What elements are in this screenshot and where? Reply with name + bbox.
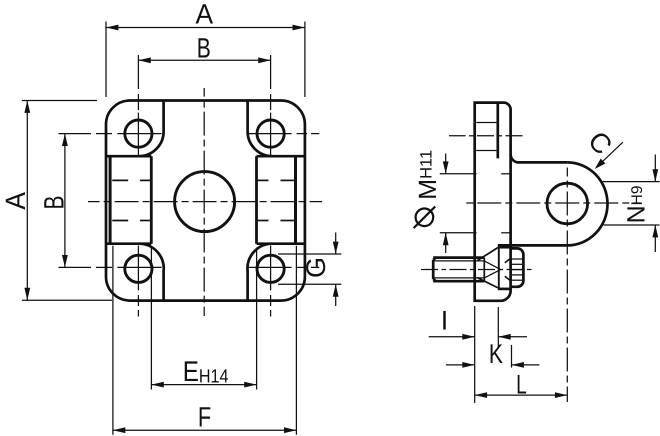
collar chamfer ticks: [505, 258, 512, 263]
dimension M bore diameter: [440, 173, 477, 175]
dimension K: [511, 345, 513, 368]
arm top edge: [518, 161, 567, 164]
dimension L: [475, 394, 568, 396]
svg-text:F: F: [198, 401, 211, 432]
dimension E: [150, 248, 152, 390]
bracket outline (side view): [475, 103, 511, 301]
dimension A vertical: [22, 100, 97, 102]
dimension A horizontal: [105, 22, 107, 98]
centerline top holes side view: [477, 135, 494, 137]
dimension G: [278, 253, 341, 255]
stud centerline: [450, 269, 467, 271]
central bore: [175, 172, 235, 232]
centerline bottom-left hole: [137, 246, 139, 291]
knurled screw head: [511, 248, 523, 286]
horizontal centerline of flange: [193, 201, 217, 203]
right side pocket: [257, 155, 305, 158]
svg-text:G: G: [301, 257, 331, 278]
plate internal edge lines: [476, 122, 496, 124]
main centerline side view: [555, 202, 579, 204]
diameter symbol for M: [416, 209, 434, 227]
dimension C chamfer leader: [598, 142, 623, 166]
thread end: [483, 258, 485, 282]
flange outline (front view): [106, 101, 305, 301]
left pocket hidden edges: [112, 179, 128, 181]
eye hole: [547, 183, 588, 224]
svg-text:K: K: [489, 339, 503, 369]
corner pocket top-right: [248, 101, 273, 157]
eye bottom / arm bottom edge: [498, 244, 568, 247]
eye vertical centerline: [566, 192, 568, 216]
dimension F: [112, 246, 114, 435]
dimension B vertical: [64, 134, 66, 268]
plate right face line: [496, 103, 499, 159]
collar body: [498, 247, 500, 289]
dimension B horizontal: [138, 59, 270, 61]
bore hidden edge ticks: [501, 173, 509, 175]
vertical centerline of flange: [203, 190, 205, 214]
centerline top-left hole: [137, 55, 139, 89]
svg-text:L: L: [516, 369, 527, 399]
left side pocket: [107, 155, 152, 158]
arm top fillet: [511, 154, 519, 162]
bolt hole top-left: [125, 120, 152, 147]
svg-text:A: A: [0, 192, 31, 210]
svg-text:B: B: [197, 33, 211, 64]
stud flare to collar: [477, 248, 498, 261]
corner pocket bottom-left: [139, 244, 164, 301]
centerline bottom-right hole: [270, 246, 272, 291]
svg-text:I: I: [441, 306, 449, 336]
corner pocket bottom-right: [247, 244, 272, 301]
bolt hole bottom-left: [125, 255, 152, 282]
dimension N eye hole diameter: [603, 181, 660, 183]
right pocket hidden edges: [257, 179, 269, 181]
eye outer end: [567, 162, 607, 245]
corner pocket top-left: [139, 101, 164, 157]
bolt hole top-right: [257, 120, 284, 147]
dimension I plate thickness: [474, 306, 476, 403]
svg-text:B: B: [38, 195, 69, 209]
threaded stud: [433, 256, 484, 259]
centerline top-right hole: [270, 55, 272, 89]
bolt hole bottom-right: [257, 255, 284, 282]
svg-text:A: A: [196, 0, 214, 29]
